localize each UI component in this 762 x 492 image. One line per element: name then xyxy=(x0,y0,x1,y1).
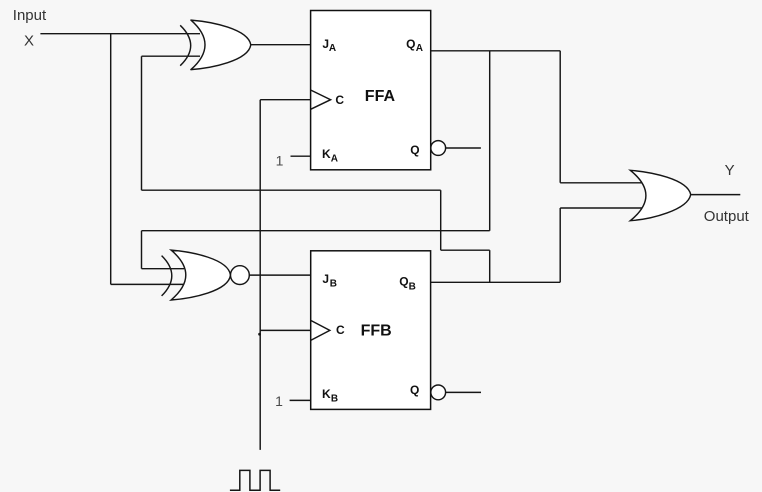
svg-text:Q: Q xyxy=(410,143,419,157)
svg-text:C: C xyxy=(335,93,344,107)
wire FFB Qbar stub xyxy=(446,391,481,393)
wire vertical x=489.7 QA feedback xyxy=(489,51,491,231)
wire OR output Y xyxy=(691,194,741,196)
svg-text:C: C xyxy=(336,323,345,337)
wire clock to FFB C xyxy=(260,329,311,331)
wire vertical x=141.5 QA feedback xyxy=(141,231,143,269)
svg-text:FFA: FFA xyxy=(365,88,396,105)
wire XNOR bottom input xyxy=(111,283,184,285)
svg-text:B: B xyxy=(330,279,337,290)
svg-text:Y: Y xyxy=(725,162,735,179)
wire XOR output to JA xyxy=(251,44,311,46)
xor gate G1 input arc xyxy=(180,25,191,65)
wire horizontal y=230.7 QA feedback xyxy=(142,230,490,232)
wire vertical x=560 QA to OR xyxy=(559,51,561,183)
xnor gate G2 input arc xyxy=(162,256,172,296)
flip-flop FFA box xyxy=(311,11,431,170)
svg-text:K: K xyxy=(322,387,331,401)
junction dot clock/FFB xyxy=(258,333,261,336)
wire horizontal y=190 QB feedback xyxy=(142,189,441,191)
svg-text:B: B xyxy=(409,282,416,293)
wire OR gate top input xyxy=(560,182,646,184)
wire horizontal y=250 QB feedback xyxy=(441,249,490,251)
svg-text:B: B xyxy=(331,394,338,405)
svg-text:Q: Q xyxy=(399,275,408,289)
svg-text:1: 1 xyxy=(276,153,284,169)
svg-text:K: K xyxy=(322,147,331,161)
or gate G3 body xyxy=(630,170,690,220)
flip-flop FFB clock triangle xyxy=(311,320,330,340)
wire vertical x=141.5 QB feedback xyxy=(141,56,143,190)
xnor gate G2 body xyxy=(171,250,230,300)
wire clock vertical xyxy=(259,100,261,450)
wire vertical x=489.7 QB feedback xyxy=(489,250,491,282)
flip-flop FFB Qbar bubble xyxy=(431,385,446,400)
wire KA constant 1 stub xyxy=(291,155,311,157)
xor gate G1 body xyxy=(191,20,251,70)
svg-text:A: A xyxy=(416,43,423,54)
svg-text:A: A xyxy=(329,43,336,54)
wire XNOR top input xyxy=(142,268,185,270)
flip-flop FFB box xyxy=(311,251,431,410)
flip-flop FFA Qbar bubble xyxy=(431,141,446,156)
svg-text:A: A xyxy=(331,154,338,165)
wire clock to FFA C xyxy=(260,99,310,101)
wire OR gate bottom input xyxy=(560,207,646,209)
flip-flop FFA clock triangle xyxy=(311,90,331,109)
wire X input horizontal xyxy=(40,33,200,35)
svg-text:FFB: FFB xyxy=(361,323,392,340)
svg-text:X: X xyxy=(24,33,34,50)
svg-text:Q: Q xyxy=(410,383,419,397)
wire FFA Qbar stub xyxy=(446,147,481,149)
wire KB constant 1 stub xyxy=(290,399,311,401)
svg-text:Q: Q xyxy=(406,37,415,51)
svg-text:1: 1 xyxy=(275,393,283,409)
clock waveform symbol xyxy=(230,470,280,490)
svg-text:J: J xyxy=(322,272,329,286)
svg-text:Input: Input xyxy=(13,7,47,24)
wire vertical x=440.7 QB feedback xyxy=(440,190,442,250)
wire QA output horizontal xyxy=(431,50,561,52)
wire X branch vertical xyxy=(110,34,112,285)
wire vertical x=560 QB to OR xyxy=(559,208,561,282)
wire XNOR output to JB xyxy=(249,274,310,276)
svg-text:Output: Output xyxy=(704,208,750,225)
wire QB output horizontal xyxy=(431,281,561,283)
xnor gate G2 bubble xyxy=(231,266,250,285)
wire XOR bottom input xyxy=(142,55,201,57)
